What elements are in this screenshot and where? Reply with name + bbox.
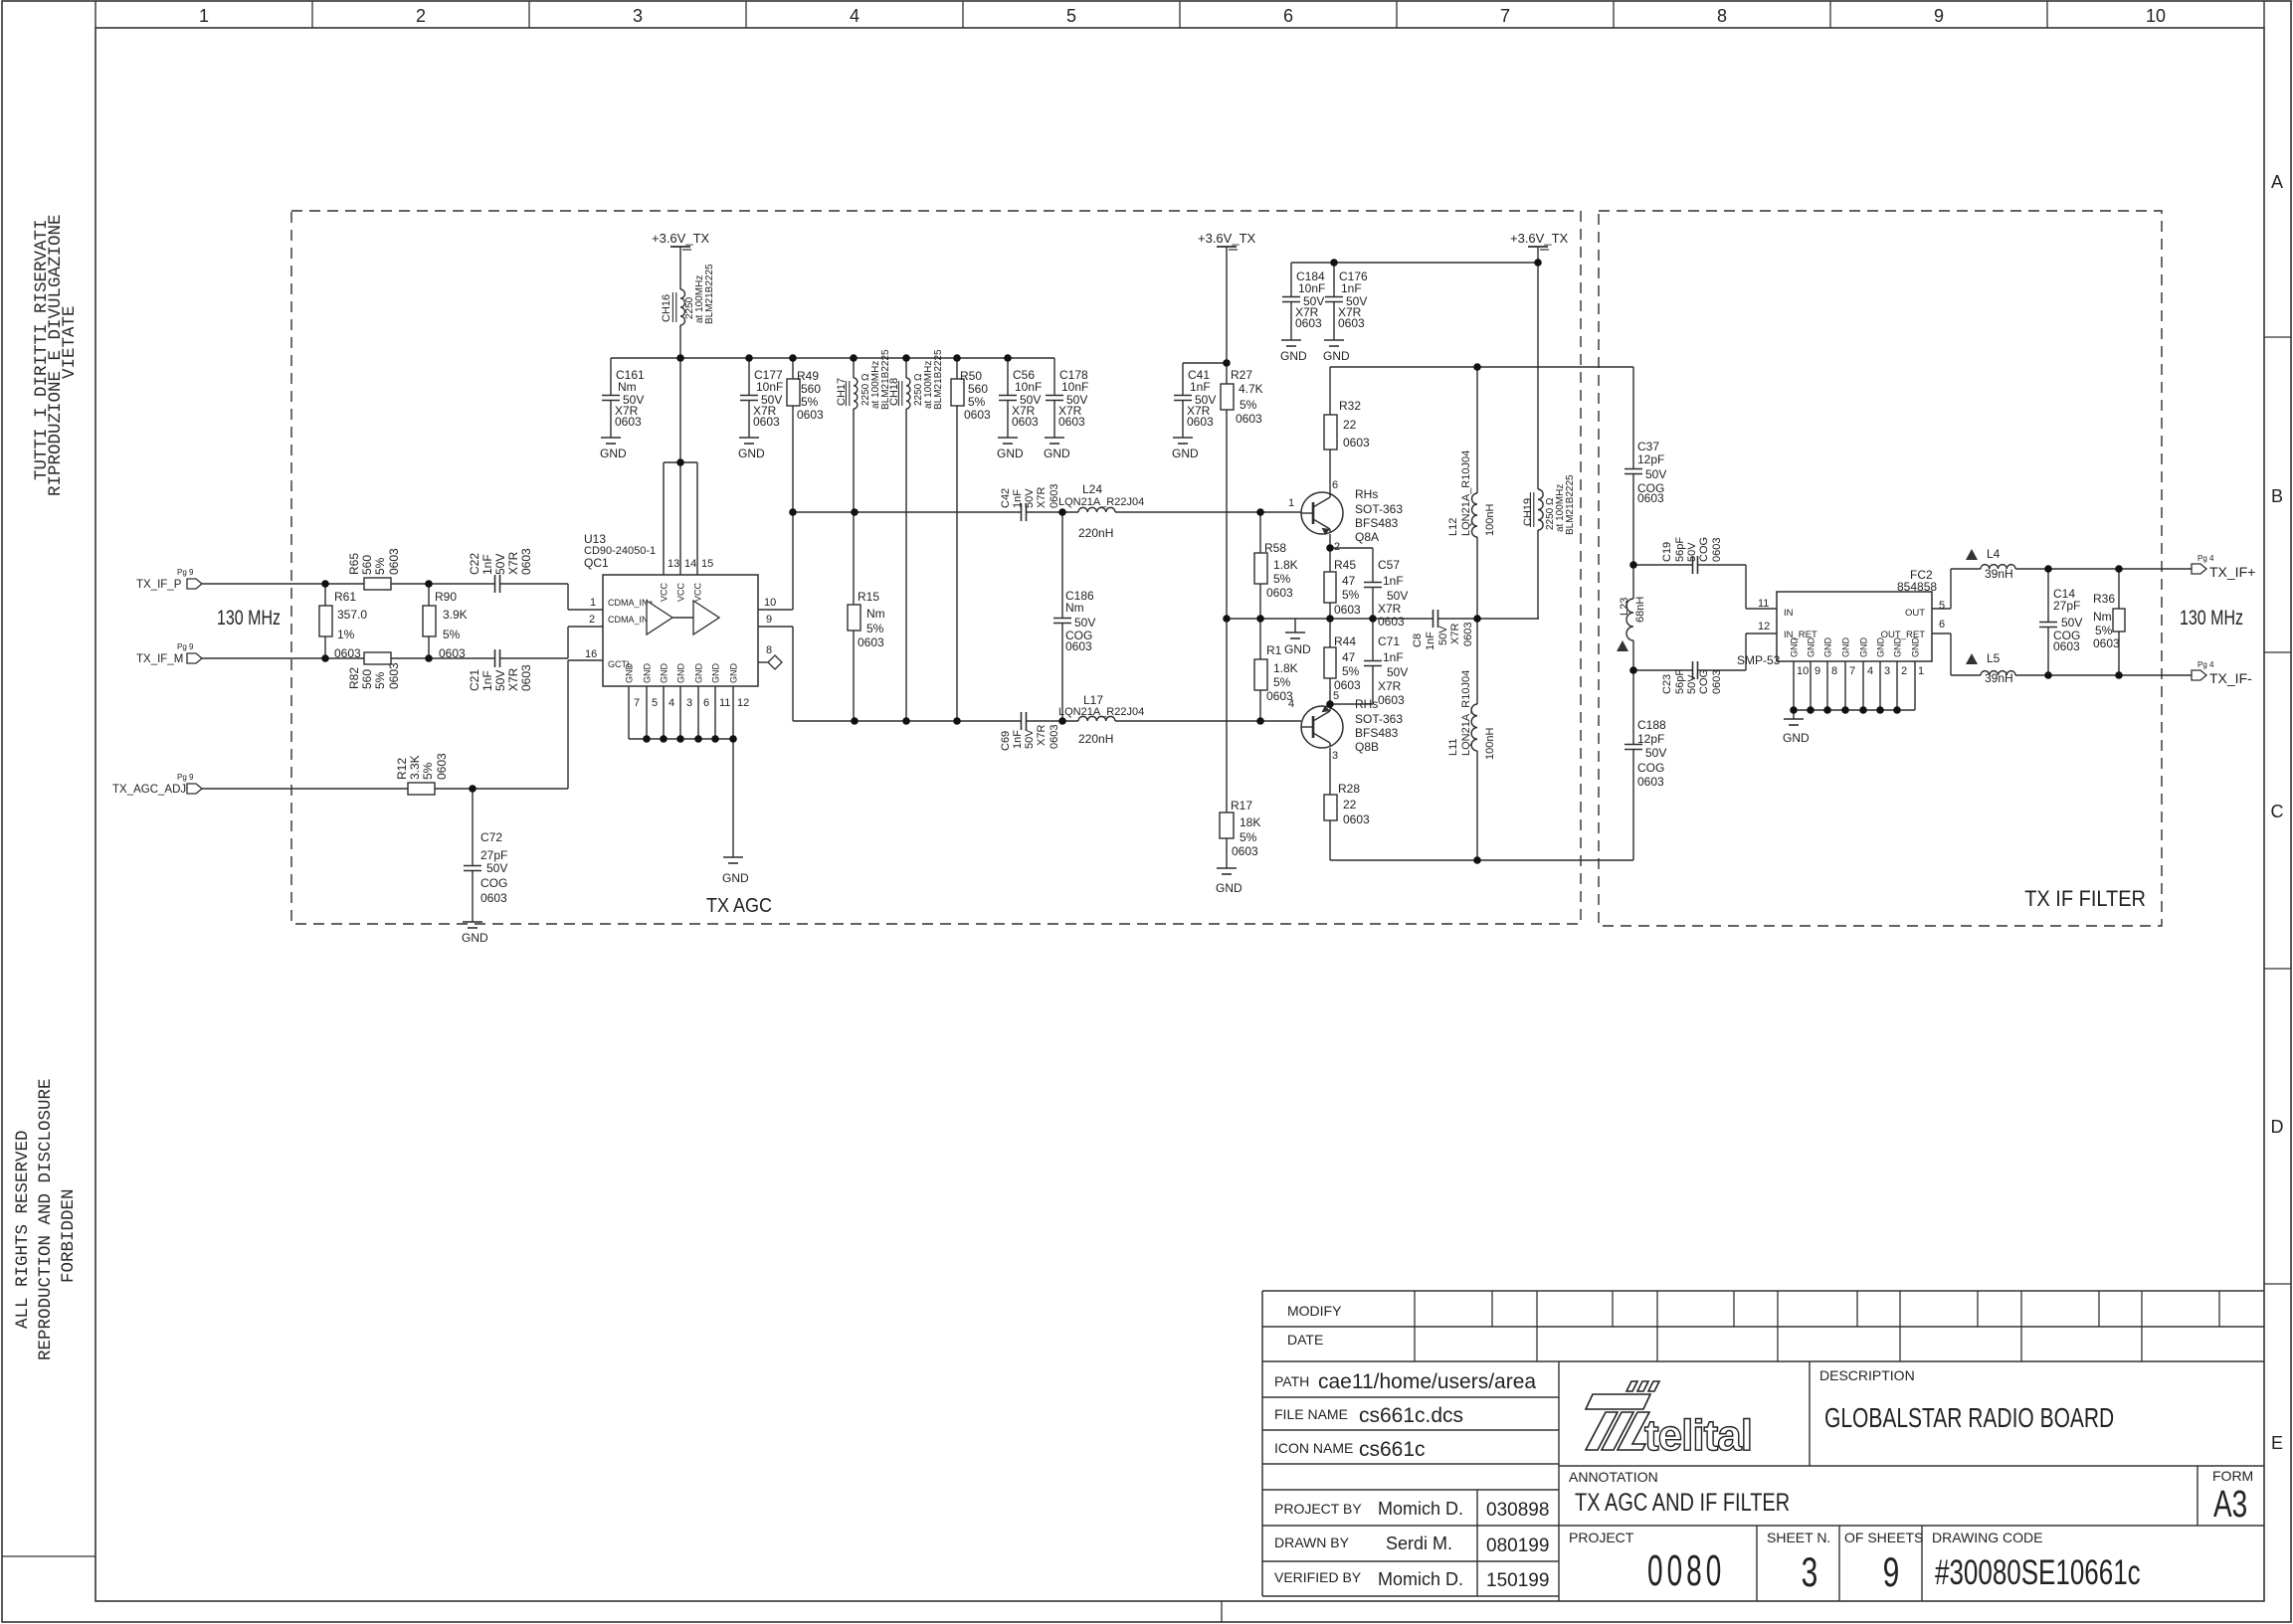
svg-text:L23: L23 <box>1619 598 1630 616</box>
svg-text:Nm: Nm <box>1065 601 1084 615</box>
svg-text:5: 5 <box>1939 600 1945 612</box>
svg-text:L11: L11 <box>1447 738 1459 756</box>
svg-text:0080: 0080 <box>1647 1546 1725 1595</box>
svg-text:8: 8 <box>766 644 772 656</box>
svg-text:cs661c: cs661c <box>1359 1438 1426 1461</box>
svg-text:CH18: CH18 <box>888 378 900 406</box>
svg-text:8: 8 <box>1717 6 1727 26</box>
svg-text:DATE: DATE <box>1287 1332 1323 1348</box>
svg-text:50V: 50V <box>1387 665 1408 679</box>
svg-text:COG: COG <box>1637 761 1664 775</box>
svg-text:10nF: 10nF <box>1015 380 1042 394</box>
svg-text:560: 560 <box>801 382 821 396</box>
svg-text:C69: C69 <box>1000 731 1012 751</box>
svg-text:LQN21A_R10J04: LQN21A_R10J04 <box>1460 451 1472 536</box>
svg-text:030898: 030898 <box>1486 1500 1549 1521</box>
svg-text:68nH: 68nH <box>1634 597 1646 623</box>
svg-text:X7R: X7R <box>1036 725 1048 746</box>
svg-text:10nF: 10nF <box>1298 281 1325 295</box>
svg-text:2: 2 <box>416 6 426 26</box>
svg-text:22: 22 <box>1343 798 1357 812</box>
svg-text:C37: C37 <box>1637 440 1659 453</box>
svg-text:BLM21B2225: BLM21B2225 <box>704 264 715 324</box>
svg-text:GND: GND <box>625 663 635 684</box>
svg-text:GND: GND <box>462 931 488 945</box>
svg-text:PROJECT: PROJECT <box>1569 1530 1634 1545</box>
svg-text:OF SHEETS: OF SHEETS <box>1844 1530 1923 1545</box>
svg-text:telital: telital <box>1644 1411 1752 1460</box>
svg-text:12: 12 <box>1758 621 1770 632</box>
svg-text:Nm: Nm <box>2093 610 2112 624</box>
svg-text:ALL RIGHTS RESERVED: ALL RIGHTS RESERVED <box>13 1130 33 1329</box>
svg-text:GND: GND <box>738 447 765 460</box>
svg-text:3: 3 <box>1884 665 1890 677</box>
svg-text:GND: GND <box>729 663 739 684</box>
svg-text:GND: GND <box>722 871 749 885</box>
svg-text:1nF: 1nF <box>480 670 494 691</box>
svg-text:7: 7 <box>1849 665 1855 677</box>
svg-text:0603: 0603 <box>1711 670 1723 694</box>
svg-text:16: 16 <box>585 648 597 660</box>
svg-text:DRAWN BY: DRAWN BY <box>1274 1534 1350 1550</box>
svg-text:0603: 0603 <box>1012 415 1039 429</box>
svg-text:CH19: CH19 <box>1522 498 1534 526</box>
svg-text:QC1: QC1 <box>584 556 609 570</box>
svg-text:C72: C72 <box>480 830 502 844</box>
svg-text:10nF: 10nF <box>1061 380 1088 394</box>
svg-text:C: C <box>2271 802 2284 821</box>
svg-text:2: 2 <box>1901 665 1907 677</box>
svg-text:1%: 1% <box>337 628 355 641</box>
svg-text:100nH: 100nH <box>1484 504 1496 536</box>
svg-text:PATH: PATH <box>1274 1373 1309 1389</box>
svg-text:GND: GND <box>711 663 721 684</box>
svg-text:27pF: 27pF <box>480 848 507 862</box>
svg-text:TX AGC AND IF FILTER: TX AGC AND IF FILTER <box>1575 1489 1790 1517</box>
svg-text:R82: R82 <box>347 667 361 689</box>
svg-text:12: 12 <box>737 697 749 709</box>
svg-text:1nF: 1nF <box>1341 281 1362 295</box>
svg-text:0603: 0603 <box>1236 412 1262 426</box>
svg-text:0603: 0603 <box>1711 538 1723 562</box>
svg-text:0603: 0603 <box>797 408 824 422</box>
svg-text:0603: 0603 <box>615 415 642 429</box>
svg-text:GND: GND <box>1284 642 1311 656</box>
svg-text:D: D <box>2271 1117 2284 1137</box>
svg-text:5%: 5% <box>1342 664 1360 678</box>
svg-text:0603: 0603 <box>1266 689 1293 703</box>
svg-text:COG: COG <box>1698 537 1710 562</box>
svg-text:560: 560 <box>360 555 374 575</box>
svg-text:5: 5 <box>652 697 658 709</box>
svg-text:A: A <box>2271 172 2283 192</box>
svg-text:1.8K: 1.8K <box>1273 661 1298 675</box>
svg-text:GND: GND <box>1323 349 1350 363</box>
svg-text:50V: 50V <box>1437 626 1449 645</box>
svg-text:C8: C8 <box>1412 633 1424 647</box>
svg-text:0603: 0603 <box>1334 678 1361 692</box>
svg-text:9: 9 <box>1934 6 1944 26</box>
svg-text:2: 2 <box>589 614 595 626</box>
svg-text:Pg 9: Pg 9 <box>177 642 194 651</box>
svg-text:Q8A: Q8A <box>1355 530 1379 544</box>
svg-text:GND: GND <box>1044 447 1070 460</box>
svg-text:5%: 5% <box>373 557 387 575</box>
svg-text:4: 4 <box>669 697 674 709</box>
svg-text:GND: GND <box>1807 637 1816 658</box>
svg-text:0603: 0603 <box>519 548 533 575</box>
svg-text:R36: R36 <box>2093 592 2115 606</box>
svg-text:L5: L5 <box>1987 651 2001 665</box>
svg-text:cae11/home/users/area: cae11/home/users/area <box>1318 1370 1536 1393</box>
svg-text:TX AGC: TX AGC <box>706 894 772 917</box>
svg-text:0603: 0603 <box>1065 639 1092 653</box>
svg-text:TX IF FILTER: TX IF FILTER <box>2024 887 2146 911</box>
svg-text:5%: 5% <box>968 395 986 409</box>
svg-text:IN: IN <box>1784 608 1794 619</box>
svg-text:GND: GND <box>694 663 704 684</box>
svg-text:FORBIDDEN: FORBIDDEN <box>59 1188 79 1283</box>
svg-text:L24: L24 <box>1082 482 1102 496</box>
svg-text:Pg 4: Pg 4 <box>2197 660 2214 669</box>
svg-text:VERIFIED BY: VERIFIED BY <box>1274 1569 1362 1585</box>
svg-text:VIETATE: VIETATE <box>60 305 80 379</box>
svg-text:3: 3 <box>633 6 643 26</box>
svg-text:50V: 50V <box>1074 616 1095 630</box>
svg-text:0603: 0603 <box>1049 725 1060 749</box>
svg-text:ANNOTATION: ANNOTATION <box>1569 1469 1658 1485</box>
svg-text:Pg 9: Pg 9 <box>177 773 194 782</box>
svg-text:7: 7 <box>634 697 640 709</box>
svg-text:0603: 0603 <box>1295 316 1322 330</box>
svg-text:R15: R15 <box>858 590 879 604</box>
svg-text:50V: 50V <box>1645 746 1666 760</box>
svg-text:50V: 50V <box>1024 488 1036 508</box>
svg-text:B: B <box>2271 486 2283 506</box>
svg-text:X7R: X7R <box>1378 679 1402 693</box>
svg-text:GND: GND <box>1216 881 1242 895</box>
svg-text:3.3K: 3.3K <box>408 755 422 780</box>
svg-text:R58: R58 <box>1264 541 1286 555</box>
svg-text:1.8K: 1.8K <box>1273 558 1298 572</box>
svg-text:GND: GND <box>1911 637 1921 658</box>
svg-text:5%: 5% <box>1273 572 1291 586</box>
svg-text:10: 10 <box>2146 6 2166 26</box>
svg-text:0603: 0603 <box>1266 586 1293 600</box>
svg-text:BLM21B2225: BLM21B2225 <box>933 349 944 410</box>
svg-text:11: 11 <box>719 697 730 709</box>
svg-text:1nF: 1nF <box>1190 380 1211 394</box>
svg-text:C42: C42 <box>1000 488 1012 508</box>
svg-text:220nH: 220nH <box>1078 526 1113 540</box>
svg-text:1nF: 1nF <box>480 554 494 575</box>
svg-text:39nH: 39nH <box>1985 671 2013 685</box>
svg-text:+3.6V_TX: +3.6V_TX <box>1198 231 1256 246</box>
svg-text:130 MHz: 130 MHz <box>217 606 281 630</box>
svg-text:8: 8 <box>1831 665 1837 677</box>
svg-text:1nF: 1nF <box>1383 574 1404 588</box>
svg-text:1: 1 <box>1918 665 1924 677</box>
svg-text:DESCRIPTION: DESCRIPTION <box>1819 1367 1915 1383</box>
svg-text:0603: 0603 <box>387 548 401 575</box>
svg-text:0603: 0603 <box>1334 603 1361 617</box>
svg-text:COG: COG <box>1698 669 1710 694</box>
svg-text:1: 1 <box>1288 497 1294 509</box>
svg-text:Nm: Nm <box>866 607 885 621</box>
svg-text:C71: C71 <box>1378 634 1400 648</box>
svg-text:0603: 0603 <box>387 662 401 689</box>
svg-text:R17: R17 <box>1231 799 1252 812</box>
svg-text:1nF: 1nF <box>1383 650 1404 664</box>
svg-text:OUT: OUT <box>1905 608 1925 619</box>
svg-text:CDMA_IN-: CDMA_IN- <box>608 615 652 625</box>
svg-text:Pg 9: Pg 9 <box>177 568 194 577</box>
svg-text:0603: 0603 <box>1232 844 1258 858</box>
svg-text:L17: L17 <box>1083 693 1103 707</box>
svg-text:Nm: Nm <box>618 380 637 394</box>
svg-text:R32: R32 <box>1339 399 1361 413</box>
svg-text:CH16: CH16 <box>661 294 672 322</box>
svg-text:LQN21A_R22J04: LQN21A_R22J04 <box>1058 706 1144 718</box>
svg-text:47: 47 <box>1342 574 1356 588</box>
svg-text:0603: 0603 <box>519 664 533 691</box>
svg-text:150199: 150199 <box>1486 1570 1549 1591</box>
svg-text:GND: GND <box>1841 637 1851 658</box>
svg-text:DRAWING CODE: DRAWING CODE <box>1932 1530 2042 1545</box>
svg-text:9: 9 <box>766 614 772 626</box>
svg-text:R27: R27 <box>1231 368 1252 382</box>
svg-text:0603: 0603 <box>1462 623 1474 646</box>
svg-text:BFS483: BFS483 <box>1355 516 1399 530</box>
svg-text:0603: 0603 <box>1343 812 1370 826</box>
svg-text:C23: C23 <box>1661 674 1673 694</box>
svg-text:GND: GND <box>1876 637 1886 658</box>
svg-text:5%: 5% <box>1273 675 1291 689</box>
svg-text:C22: C22 <box>468 553 481 575</box>
svg-text:4: 4 <box>850 6 860 26</box>
svg-text:BFS483: BFS483 <box>1355 726 1399 740</box>
svg-text:FORM: FORM <box>2212 1468 2253 1484</box>
svg-text:PROJECT BY: PROJECT BY <box>1274 1501 1362 1517</box>
svg-text:GND: GND <box>1859 637 1869 658</box>
svg-text:R49: R49 <box>797 369 819 383</box>
svg-text:50V: 50V <box>1686 542 1698 562</box>
svg-text:0603: 0603 <box>1378 615 1405 629</box>
svg-text:ICON NAME: ICON NAME <box>1274 1440 1353 1456</box>
svg-text:100nH: 100nH <box>1484 728 1496 760</box>
svg-text:GND: GND <box>676 663 686 684</box>
svg-text:3: 3 <box>1802 1548 1818 1595</box>
svg-text:50V: 50V <box>1686 674 1698 694</box>
svg-text:5%: 5% <box>373 671 387 689</box>
svg-text:1: 1 <box>590 597 596 609</box>
svg-text:56pF: 56pF <box>1674 669 1686 694</box>
svg-text:R44: R44 <box>1334 634 1356 648</box>
svg-text:VCC: VCC <box>660 582 669 602</box>
svg-text:E: E <box>2271 1433 2283 1453</box>
svg-text:0603: 0603 <box>1058 415 1085 429</box>
svg-text:R28: R28 <box>1338 782 1360 796</box>
svg-text:22: 22 <box>1343 418 1357 432</box>
svg-text:SMP-53: SMP-53 <box>1737 653 1781 667</box>
svg-text:5: 5 <box>1066 6 1076 26</box>
svg-text:50V: 50V <box>493 554 507 575</box>
svg-text:12pF: 12pF <box>1637 452 1664 466</box>
svg-text:5%: 5% <box>443 628 461 641</box>
svg-text:10: 10 <box>764 597 776 609</box>
svg-text:TX_IF+: TX_IF+ <box>2209 564 2255 580</box>
svg-text:5%: 5% <box>1240 398 1257 412</box>
svg-text:LQN21A_R10J04: LQN21A_R10J04 <box>1460 670 1472 756</box>
svg-text:CH17: CH17 <box>836 378 848 406</box>
svg-text:RHs: RHs <box>1355 487 1378 501</box>
svg-text:15: 15 <box>701 558 713 570</box>
svg-text:50V: 50V <box>1387 589 1408 603</box>
svg-text:1: 1 <box>199 6 209 26</box>
svg-text:+3.6V_TX: +3.6V_TX <box>1510 231 1569 246</box>
svg-text:FILE NAME: FILE NAME <box>1274 1406 1348 1422</box>
svg-text:VCC: VCC <box>693 582 703 602</box>
svg-text:A3: A3 <box>2213 1484 2247 1526</box>
svg-text:GND: GND <box>1280 349 1307 363</box>
svg-text:0603: 0603 <box>964 408 991 422</box>
svg-text:GND: GND <box>1893 637 1903 658</box>
svg-text:50V: 50V <box>486 861 507 875</box>
svg-text:7: 7 <box>1500 6 1510 26</box>
svg-text:Serdi M.: Serdi M. <box>1386 1534 1452 1553</box>
svg-text:GND: GND <box>600 447 627 460</box>
svg-text:27pF: 27pF <box>2053 599 2080 613</box>
svg-text:0603: 0603 <box>1637 491 1664 505</box>
svg-text:0603: 0603 <box>2093 636 2120 650</box>
svg-text:X7R: X7R <box>506 551 520 575</box>
svg-text:56pF: 56pF <box>1674 537 1686 562</box>
svg-text:GND: GND <box>1823 637 1833 658</box>
svg-text:10: 10 <box>1797 665 1809 677</box>
svg-text:0603: 0603 <box>1343 436 1370 450</box>
svg-text:0603: 0603 <box>1187 415 1214 429</box>
svg-text:TX_IF-: TX_IF- <box>2209 670 2252 686</box>
svg-text:1nF: 1nF <box>1012 489 1024 508</box>
svg-text:GND: GND <box>1172 447 1199 460</box>
svg-text:50V: 50V <box>1645 467 1666 481</box>
svg-text:9: 9 <box>1815 665 1820 677</box>
svg-text:LQN21A_R22J04: LQN21A_R22J04 <box>1058 496 1144 508</box>
svg-text:COG: COG <box>480 876 507 890</box>
svg-text:cs661c.dcs: cs661c.dcs <box>1359 1404 1463 1427</box>
svg-text:0603: 0603 <box>1637 775 1664 789</box>
svg-text:SOT-363: SOT-363 <box>1355 502 1403 516</box>
svg-text:#30080SE10661c: #30080SE10661c <box>1935 1552 2141 1592</box>
svg-text:5%: 5% <box>1240 830 1257 844</box>
svg-text:Q8B: Q8B <box>1355 740 1379 754</box>
svg-text:130 MHz: 130 MHz <box>2180 606 2243 630</box>
svg-text:BLM21B2225: BLM21B2225 <box>1565 474 1576 535</box>
svg-text:TX_AGC_ADJ: TX_AGC_ADJ <box>112 784 186 796</box>
svg-text:C19: C19 <box>1661 542 1673 562</box>
svg-text:R12: R12 <box>395 758 409 780</box>
svg-text:0603: 0603 <box>1338 316 1365 330</box>
svg-text:GND: GND <box>660 663 669 684</box>
svg-text:Momich D.: Momich D. <box>1378 1569 1463 1589</box>
svg-text:3: 3 <box>1332 750 1338 762</box>
svg-text:18K: 18K <box>1240 815 1260 829</box>
svg-text:39nH: 39nH <box>1985 567 2013 581</box>
svg-text:0603: 0603 <box>439 646 466 660</box>
svg-text:R45: R45 <box>1334 558 1356 572</box>
svg-text:47: 47 <box>1342 650 1356 664</box>
svg-text:2: 2 <box>1334 541 1340 553</box>
svg-text:5%: 5% <box>866 622 884 635</box>
svg-text:5%: 5% <box>2095 624 2113 637</box>
svg-text:1nF: 1nF <box>1012 730 1024 749</box>
svg-text:11: 11 <box>1758 598 1769 610</box>
svg-text:560: 560 <box>360 669 374 689</box>
svg-text:GLOBALSTAR RADIO BOARD: GLOBALSTAR RADIO BOARD <box>1824 1403 2114 1433</box>
svg-text:220nH: 220nH <box>1078 732 1113 746</box>
svg-text:4.7K: 4.7K <box>1239 382 1263 396</box>
svg-text:0603: 0603 <box>2053 639 2080 653</box>
svg-text:GND: GND <box>997 447 1024 460</box>
svg-text:X7R: X7R <box>506 667 520 691</box>
svg-text:C188: C188 <box>1637 718 1666 732</box>
svg-text:Momich D.: Momich D. <box>1378 1499 1463 1519</box>
svg-text:0603: 0603 <box>334 646 361 660</box>
svg-text:854858: 854858 <box>1897 580 1937 594</box>
svg-text:5%: 5% <box>421 762 435 780</box>
svg-text:R90: R90 <box>435 590 457 604</box>
svg-text:14: 14 <box>684 558 696 570</box>
svg-text:TX_IF_M: TX_IF_M <box>136 653 183 665</box>
svg-text:6: 6 <box>1283 6 1293 26</box>
svg-text:50V: 50V <box>2061 616 2082 630</box>
svg-text:560: 560 <box>968 382 988 396</box>
svg-text:Pg 4: Pg 4 <box>2197 554 2214 563</box>
svg-text:9: 9 <box>1883 1548 1900 1595</box>
svg-text:5%: 5% <box>801 395 819 409</box>
svg-text:C57: C57 <box>1378 558 1400 572</box>
svg-text:4: 4 <box>1867 665 1873 677</box>
svg-text:X7R: X7R <box>1378 602 1402 616</box>
svg-text:6: 6 <box>1332 479 1338 491</box>
svg-text:GND: GND <box>1783 731 1810 745</box>
svg-text:0603: 0603 <box>1378 693 1405 707</box>
svg-text:6: 6 <box>703 697 709 709</box>
svg-text:3: 3 <box>686 697 692 709</box>
svg-text:0603: 0603 <box>480 891 507 905</box>
svg-text:12pF: 12pF <box>1637 732 1664 746</box>
svg-text:0603: 0603 <box>858 635 884 649</box>
svg-text:R50: R50 <box>960 369 982 383</box>
svg-text:X7R: X7R <box>1449 624 1461 644</box>
svg-text:MODIFY: MODIFY <box>1287 1303 1342 1319</box>
svg-text:0603: 0603 <box>753 415 780 429</box>
svg-text:+3.6V_TX: +3.6V_TX <box>652 231 710 246</box>
svg-text:50V: 50V <box>1024 729 1036 749</box>
svg-text:SOT-363: SOT-363 <box>1355 712 1403 726</box>
svg-text:1nF: 1nF <box>1425 632 1436 650</box>
svg-text:X7R: X7R <box>1036 487 1048 508</box>
svg-text:C21: C21 <box>468 669 481 691</box>
svg-text:0603: 0603 <box>435 753 449 780</box>
svg-text:R65: R65 <box>347 553 361 575</box>
svg-text:RHs: RHs <box>1355 697 1378 711</box>
svg-text:13: 13 <box>668 558 679 570</box>
svg-text:080199: 080199 <box>1486 1535 1549 1556</box>
svg-text:357.0: 357.0 <box>337 608 367 622</box>
svg-text:R61: R61 <box>334 590 356 604</box>
svg-text:3.9K: 3.9K <box>443 608 468 622</box>
